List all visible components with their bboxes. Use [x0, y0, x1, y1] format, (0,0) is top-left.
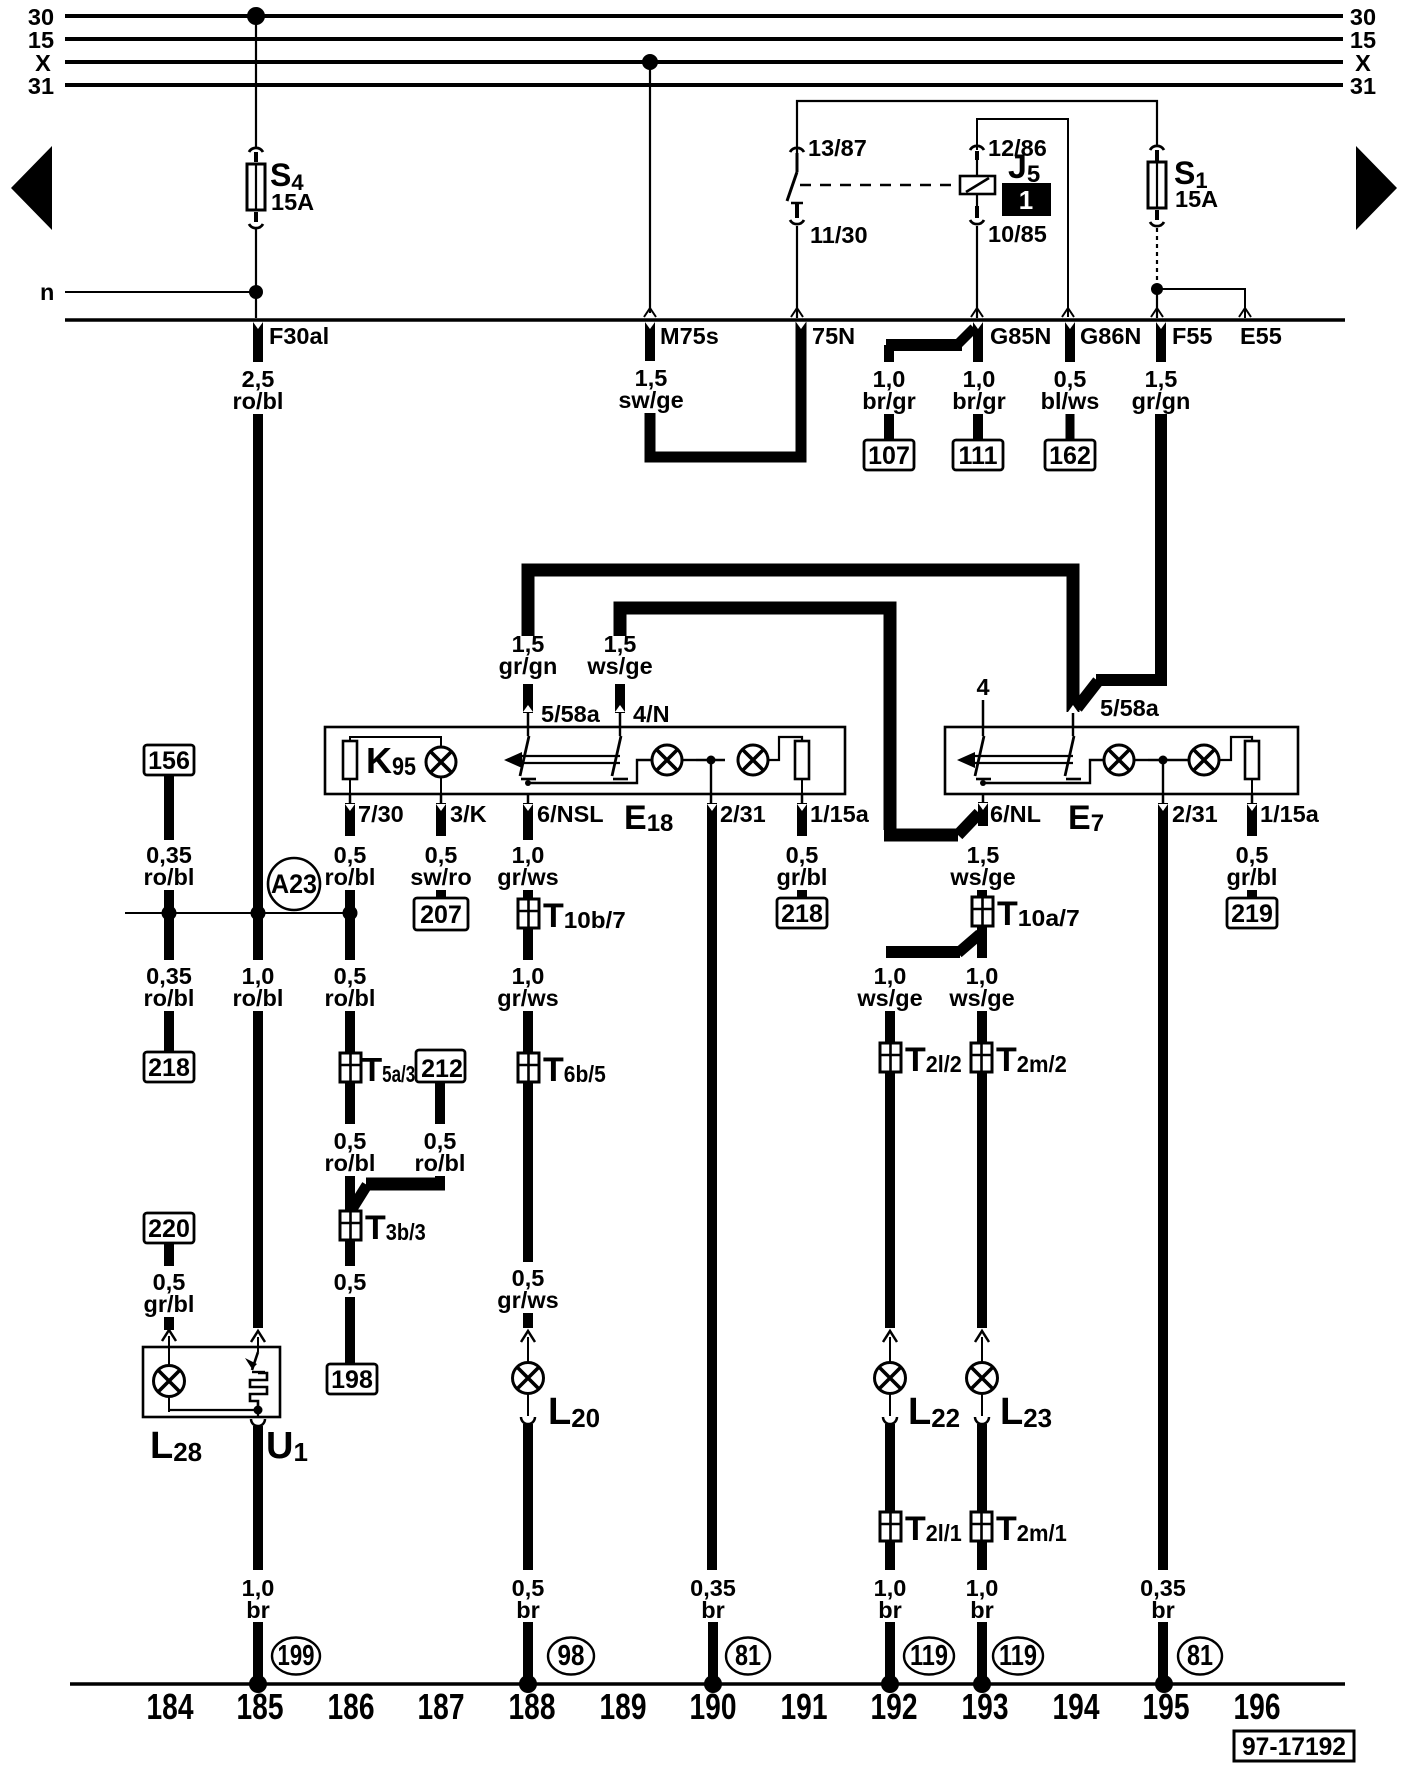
wire 0,5 gr/bl to 219 — [1227, 842, 1278, 898]
wire 1,5 ws/ge E18 4/N run — [586, 608, 890, 830]
svg-text:6/NSL: 6/NSL — [537, 801, 604, 827]
wire elbow to E7 6/NL — [884, 794, 983, 835]
resistor E18 left — [350, 737, 441, 747]
current track 98 — [548, 1638, 594, 1675]
relay J5 contact 11/30 — [790, 203, 868, 248]
lamp L28 — [150, 1366, 202, 1468]
svg-text:4/N: 4/N — [633, 701, 670, 727]
connector box 162 — [1045, 440, 1095, 470]
wire 0,35 br to 190 — [690, 803, 736, 1684]
svg-text:1/15a: 1/15a — [1260, 801, 1320, 827]
svg-text:119: 119 — [999, 1640, 1037, 1672]
svg-text:bl/ws: bl/ws — [1041, 388, 1100, 414]
connector box 156 — [144, 745, 194, 775]
svg-text:ws/ge: ws/ge — [949, 864, 1015, 890]
wire bus30 to fuse S4 — [255, 16, 257, 147]
rail node 195 — [1155, 1675, 1173, 1693]
svg-text:187: 187 — [418, 1686, 465, 1727]
svg-text:5/58a: 5/58a — [541, 701, 601, 727]
resistor E7 right — [1219, 737, 1259, 794]
relay frame outer wire — [797, 101, 1157, 158]
terminal E7 5/58a — [1073, 695, 1160, 727]
relay frame inner wire — [977, 119, 1068, 317]
terminal E18 1/15a — [802, 794, 870, 836]
lamp unit L28 / lighter U1 box — [143, 1347, 280, 1417]
terminal E18 7/30 — [350, 794, 404, 836]
svg-text:ro/bl: ro/bl — [325, 985, 376, 1011]
terminal E18 2/31 — [711, 794, 766, 827]
wire 0,5 ro/bl below 212 — [352, 1083, 465, 1209]
wire 0,5 gr/bl to L28 — [144, 1243, 195, 1366]
wire 1,0 br/gr to 107 — [862, 328, 974, 440]
lamp E18 left — [652, 745, 696, 775]
wire to lamp L22 — [883, 1072, 897, 1363]
terminal G86N — [1070, 322, 1141, 362]
rail node 190 — [704, 1675, 722, 1693]
wire S4 to F30al — [255, 228, 257, 318]
svg-text:188: 188 — [509, 1686, 556, 1727]
wire 1,0 ws/ge left — [856, 963, 922, 1043]
lamp switch unit E18 — [325, 727, 845, 837]
wire 1,5 sw/ge M75s to 75N — [618, 322, 801, 457]
wire 11/30 to 75N — [796, 226, 798, 318]
svg-text:br: br — [1151, 1597, 1175, 1623]
contact link to lamps E18 — [528, 760, 652, 783]
terminal E18 6/NSL — [528, 794, 604, 840]
svg-text:5/58a: 5/58a — [1100, 695, 1160, 721]
svg-text:195: 195 — [1143, 1686, 1190, 1727]
lamp E7 right — [1189, 745, 1219, 775]
contact link to lamps E7 — [983, 760, 1104, 783]
svg-text:3/K: 3/K — [450, 801, 487, 827]
wire 0,5 ro/bl to T5a/3 — [325, 963, 376, 1053]
wire 1,0 br/gr to 111 — [952, 366, 1006, 440]
bottom terminal rail — [70, 1682, 1345, 1686]
wire 0,5 ro/bl 7/30 — [325, 842, 376, 960]
lamp K95 — [366, 740, 456, 794]
drawing number box 97-17192 — [1234, 1731, 1354, 1761]
svg-text:186: 186 — [328, 1686, 375, 1727]
relay J5 contact 13/87 — [787, 135, 867, 201]
rail node 185 — [249, 1675, 267, 1693]
connector T2m/1 — [971, 1510, 1067, 1548]
wire 1,0 ro/bl main — [233, 963, 284, 1352]
svg-text:G85N: G85N — [990, 323, 1051, 349]
wire 1,0 gr/ws lower — [497, 928, 558, 1053]
wire 0,35 ro/bl upper left — [144, 775, 195, 960]
wire 0,35 ro/bl lower left — [144, 963, 195, 1052]
switch blade E18 4/N — [612, 727, 628, 779]
svg-text:196: 196 — [1234, 1686, 1281, 1727]
svg-text:31: 31 — [1350, 73, 1376, 99]
svg-text:gr/bl: gr/bl — [777, 864, 828, 890]
current track 119 right — [993, 1638, 1043, 1675]
connector T2l/2 — [880, 1041, 962, 1079]
wire 0,5 bl/ws to 162 — [1041, 366, 1100, 440]
terminal E7 1/15a — [1252, 794, 1320, 836]
switch E18 busbar and arrow — [504, 752, 620, 768]
svg-text:81: 81 — [735, 1640, 761, 1672]
switch blade E7 4 — [975, 727, 991, 786]
current track 81 left — [726, 1638, 770, 1675]
svg-text:F30al: F30al — [269, 323, 329, 349]
svg-text:n: n — [40, 279, 54, 305]
svg-text:31: 31 — [28, 73, 54, 99]
svg-text:7/30: 7/30 — [358, 801, 404, 827]
svg-text:97-17192: 97-17192 — [1242, 1733, 1346, 1761]
wire 1,0 br to 185 — [242, 1410, 275, 1684]
connector T2m/2 — [971, 1041, 1067, 1079]
svg-text:ws/ge: ws/ge — [856, 985, 922, 1011]
svg-text:199: 199 — [278, 1640, 315, 1672]
svg-text:6/NL: 6/NL — [990, 801, 1041, 827]
svg-text:2/31: 2/31 — [720, 801, 766, 827]
svg-text:15A: 15A — [271, 189, 314, 215]
svg-text:207: 207 — [420, 901, 462, 929]
svg-text:185: 185 — [237, 1686, 284, 1727]
svg-text:sw/ro: sw/ro — [410, 864, 471, 890]
wire 0,5 br L20 to 188 — [512, 1393, 545, 1684]
terminal M75s — [650, 322, 719, 361]
svg-text:98: 98 — [558, 1640, 585, 1672]
switch E7 busbar and arrow — [957, 752, 1073, 768]
wire F55 node to E55 — [1157, 289, 1245, 318]
connector box 111 — [953, 440, 1003, 470]
svg-text:gr/bl: gr/bl — [144, 1291, 195, 1317]
lighter element U1 — [169, 1352, 308, 1467]
svg-text:M75s: M75s — [660, 323, 719, 349]
wire L23 to T2m/1 — [975, 1393, 989, 1512]
svg-text:ro/bl: ro/bl — [325, 1150, 376, 1176]
bus 31 — [28, 73, 1376, 99]
svg-text:184: 184 — [147, 1686, 195, 1727]
wire 0,5 to 198 — [334, 1240, 367, 1364]
svg-text:br: br — [970, 1597, 994, 1623]
page arrow right — [1356, 146, 1397, 230]
connector box 107 — [864, 440, 914, 470]
svg-text:ro/bl: ro/bl — [415, 1150, 466, 1176]
wire to lamp L23 — [975, 1072, 989, 1363]
svg-text:A23: A23 — [271, 869, 317, 899]
svg-text:2/31: 2/31 — [1172, 801, 1218, 827]
wire 1,0 br to 192 — [874, 1541, 907, 1684]
svg-text:ws/ge: ws/ge — [586, 653, 652, 679]
connector box 220 — [144, 1213, 194, 1243]
node E18 2/31 — [696, 756, 725, 795]
wire 0,5 gr/bl to 218 — [777, 842, 828, 898]
node E7 2/31 — [1148, 756, 1189, 795]
svg-text:81: 81 — [1187, 1640, 1213, 1672]
wire 1,0 ws/ge right — [948, 963, 1014, 1043]
page arrow left — [11, 146, 52, 230]
resistor E18 right — [768, 737, 809, 794]
terminal E7 6/NL — [990, 801, 1041, 827]
lamp E7 left — [1104, 745, 1148, 775]
svg-text:193: 193 — [962, 1686, 1009, 1727]
wire split below T10a/7 — [886, 926, 982, 958]
wire L22 to T2l/1 — [883, 1393, 897, 1512]
rail node 193 — [973, 1675, 991, 1693]
lamp switch unit E7 — [945, 727, 1298, 837]
current track 119 left — [904, 1638, 954, 1675]
svg-text:220: 220 — [148, 1215, 190, 1243]
svg-text:ro/bl: ro/bl — [144, 985, 195, 1011]
svg-text:br: br — [701, 1597, 725, 1623]
wire 1,5 gr/gn E18 5/58a run — [499, 570, 1073, 727]
node n — [40, 279, 263, 305]
svg-text:br/gr: br/gr — [862, 388, 916, 414]
svg-text:15A: 15A — [1175, 186, 1218, 212]
terminal notches — [253, 322, 1257, 811]
terminal F55 — [1161, 322, 1213, 362]
svg-text:191: 191 — [781, 1686, 828, 1727]
wire 1,5 ws/ge 6/NL — [949, 842, 1015, 897]
bus X — [35, 50, 1371, 76]
connector box 218 right — [777, 898, 827, 928]
connector T2l/1 — [880, 1510, 962, 1548]
connector T6b/5 — [518, 1051, 606, 1089]
connector box 219 — [1227, 898, 1277, 928]
svg-text:189: 189 — [600, 1686, 647, 1727]
svg-text:194: 194 — [1053, 1686, 1101, 1727]
lamp E18 right — [738, 745, 768, 775]
svg-text:4: 4 — [976, 674, 989, 700]
wire 0,5 sw/ro — [410, 842, 471, 898]
wire 0,5 gr/ws to L20 — [497, 1082, 558, 1363]
svg-text:198: 198 — [331, 1366, 373, 1394]
connector box 207 — [414, 898, 468, 930]
svg-text:1: 1 — [1019, 185, 1033, 215]
fuse S1 15A — [1148, 146, 1218, 226]
connector T3b/3 — [340, 1209, 426, 1247]
svg-text:162: 162 — [1049, 442, 1091, 470]
terminal G85N — [978, 322, 1051, 362]
svg-text:gr/ws: gr/ws — [497, 985, 558, 1011]
terminal E7 2/31 — [1163, 794, 1218, 827]
svg-text:G86N: G86N — [1080, 323, 1141, 349]
svg-text:sw/ge: sw/ge — [618, 387, 683, 413]
wire 0,35 br to 195 — [1140, 803, 1186, 1684]
junction on bus X — [642, 54, 658, 70]
svg-text:10/85: 10/85 — [988, 221, 1047, 247]
connector box 218 left — [144, 1052, 194, 1082]
node A23 — [125, 858, 358, 921]
bus 30 — [28, 4, 1376, 30]
svg-text:ro/bl: ro/bl — [325, 864, 376, 890]
relay J5 terminal 12/86 — [970, 135, 1047, 176]
svg-text:212: 212 — [421, 1055, 463, 1083]
svg-text:br: br — [516, 1597, 540, 1623]
wire M75s riser — [649, 62, 651, 313]
svg-text:gr/ws: gr/ws — [497, 864, 558, 890]
svg-text:192: 192 — [871, 1686, 918, 1727]
svg-text:gr/bl: gr/bl — [1227, 864, 1278, 890]
connector box 198 — [327, 1364, 377, 1394]
relay J5 code box 1 — [1002, 183, 1051, 216]
rail node 192 — [881, 1675, 899, 1693]
lamp L20 — [513, 1363, 601, 1434]
wire 1,0 gr/ws upper — [497, 842, 558, 899]
svg-text:1/15a: 1/15a — [810, 801, 870, 827]
terminal E7 4 — [976, 674, 989, 727]
svg-text:br: br — [246, 1597, 270, 1623]
connector box 212 — [416, 1050, 465, 1083]
connector T10b/7 — [518, 897, 626, 935]
svg-text:ws/ge: ws/ge — [948, 985, 1014, 1011]
lamp L22 — [875, 1363, 961, 1434]
svg-text:F55: F55 — [1172, 323, 1213, 349]
svg-text:13/87: 13/87 — [808, 135, 867, 161]
svg-text:ro/bl: ro/bl — [233, 985, 284, 1011]
svg-text:gr/ws: gr/ws — [497, 1287, 558, 1313]
svg-text:156: 156 — [148, 747, 190, 775]
wire 1,0 br to 193 — [966, 1541, 999, 1684]
svg-text:0,5: 0,5 — [334, 1269, 367, 1295]
svg-text:75N: 75N — [812, 323, 855, 349]
junction on bus 30 — [247, 7, 265, 25]
terminal strip — [65, 318, 1345, 322]
svg-text:218: 218 — [148, 1054, 190, 1082]
svg-text:br/gr: br/gr — [952, 388, 1006, 414]
svg-text:190: 190 — [690, 1686, 737, 1727]
svg-text:ro/bl: ro/bl — [144, 864, 195, 890]
bus 15 — [28, 27, 1376, 53]
current track 199 — [272, 1638, 320, 1675]
svg-text:gr/gn: gr/gn — [499, 653, 558, 679]
relay J5 coil — [800, 176, 995, 194]
svg-text:219: 219 — [1231, 900, 1273, 928]
svg-text:11/30: 11/30 — [810, 222, 868, 248]
rail numbers 184-196 — [147, 1686, 1281, 1727]
relay J5 terminal 10/85 — [970, 194, 1047, 247]
rail node 188 — [519, 1675, 537, 1693]
svg-text:218: 218 — [781, 900, 823, 928]
wire S1 to F55 — [1156, 228, 1158, 289]
wire 2,5 ro/bl — [233, 366, 284, 960]
svg-text:ro/bl: ro/bl — [233, 388, 284, 414]
terminal F30al — [258, 322, 329, 362]
switch blade E18 5/58a — [520, 727, 536, 786]
connector T10a/7 — [972, 895, 1080, 933]
fuse S4 15A — [247, 148, 314, 228]
terminal E18 3/K — [441, 794, 487, 836]
svg-text:E55: E55 — [1240, 323, 1282, 349]
svg-text:119: 119 — [910, 1640, 948, 1672]
connector T5a/3 — [340, 1051, 415, 1088]
switch blade E7 5/58a — [1065, 727, 1081, 779]
lamp L23 — [967, 1363, 1053, 1434]
svg-text:111: 111 — [959, 442, 998, 470]
svg-text:gr/gn: gr/gn — [1132, 388, 1191, 414]
wire 10/85 to G85N — [976, 226, 978, 318]
wire 1,5 gr/gn F55 to E7 — [1077, 366, 1190, 708]
svg-text:br: br — [878, 1597, 902, 1623]
svg-text:107: 107 — [868, 442, 910, 470]
current track 81 right — [1178, 1638, 1222, 1675]
wire 0,5 ro/bl below T5a/3 — [325, 1082, 376, 1211]
